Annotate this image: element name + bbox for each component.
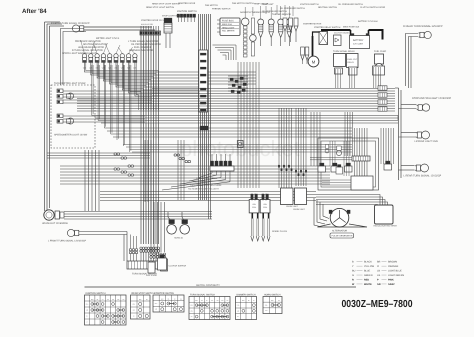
svg-text:STOP AND TAILLIGHT 12V32/3CP: STOP AND TAILLIGHT 12V32/3CP bbox=[412, 97, 451, 100]
svg-text:SWITCH CONTINUITY: SWITCH CONTINUITY bbox=[196, 284, 220, 287]
svg-text:BAT: BAT bbox=[242, 300, 245, 302]
svg-text:THERMO SENSOR: THERMO SENSOR bbox=[272, 13, 291, 16]
svg-text:ST: ST bbox=[174, 299, 176, 301]
svg-text:SPARK PLUGS: SPARK PLUGS bbox=[272, 230, 288, 233]
svg-text:REAR STOP LIGHT SWITCH: REAR STOP LIGHT SWITCH bbox=[152, 3, 181, 6]
svg-text:FR HEADLIGHT RELAY: FR HEADLIGHT RELAY bbox=[196, 177, 218, 180]
svg-text:12V 12AH: 12V 12AH bbox=[353, 43, 363, 46]
svg-text:IG: IG bbox=[278, 300, 279, 302]
svg-text:BAT: BAT bbox=[271, 300, 274, 302]
svg-text:COIL: COIL bbox=[263, 206, 267, 209]
svg-text:TACHOMETER LIGHT TAILLIGHT: TACHOMETER LIGHT TAILLIGHT bbox=[188, 188, 220, 191]
svg-text:TL1: TL1 bbox=[180, 299, 183, 301]
svg-text:CLUTCH SWITCH DIODE: CLUTCH SWITCH DIODE bbox=[360, 6, 386, 9]
svg-text:BATTERY: BATTERY bbox=[353, 39, 364, 42]
svg-text:FAN MOTOR: FAN MOTOR bbox=[205, 4, 218, 7]
svg-text:SIDE STAND: SIDE STAND bbox=[146, 274, 158, 277]
svg-text:PINK: PINK bbox=[388, 278, 394, 281]
svg-text:ST: ST bbox=[206, 300, 208, 302]
svg-text:ST: ST bbox=[86, 316, 88, 318]
svg-text:STARTER SWITCH: STARTER SWITCH bbox=[154, 292, 175, 295]
svg-text:SPARK UNIT: SPARK UNIT bbox=[293, 208, 306, 211]
svg-text:STOP LIGHT SWITCH: STOP LIGHT SWITCH bbox=[162, 15, 184, 18]
svg-text:OIL PRESSURE SWITCH: OIL PRESSURE SWITCH bbox=[338, 3, 363, 6]
svg-text:BU: BU bbox=[352, 269, 356, 272]
svg-text:THERMO SWITCH: THERMO SWITCH bbox=[212, 8, 231, 11]
svg-text:ON: ON bbox=[155, 309, 157, 311]
svg-text:ON: ON bbox=[133, 310, 135, 312]
svg-text:REAR STOP LIGHT SWITCH: REAR STOP LIGHT SWITCH bbox=[146, 6, 175, 9]
svg-text:TL2: TL2 bbox=[216, 300, 219, 302]
svg-text:LICENSE LIGHT 12V8: LICENSE LIGHT 12V8 bbox=[415, 140, 439, 143]
svg-text:HO: HO bbox=[117, 299, 119, 301]
svg-text:TL1: TL1 bbox=[107, 299, 110, 301]
svg-text:TL1: TL1 bbox=[211, 300, 214, 302]
svg-text:BAT: BAT bbox=[195, 300, 198, 302]
svg-text:FUEL RESERVE: FUEL RESERVE bbox=[134, 46, 152, 49]
svg-text:TAILLIGHT RELAY: TAILLIGHT RELAY bbox=[193, 181, 211, 184]
svg-text:TL2: TL2 bbox=[112, 299, 115, 301]
svg-text:A B LB LG GR: A B LB LG GR bbox=[141, 23, 154, 26]
svg-text:After '84: After '84 bbox=[22, 8, 47, 15]
svg-text:0030Z–ME9–7800: 0030Z–ME9–7800 bbox=[342, 299, 413, 310]
svg-text:FAN MOTOR SWITCH: FAN MOTOR SWITCH bbox=[232, 2, 254, 5]
svg-text:IG: IG bbox=[97, 299, 98, 301]
svg-text:TACHOMETER LIGHT 12V3W: TACHOMETER LIGHT 12V3W bbox=[54, 82, 86, 85]
svg-text:OFF: OFF bbox=[155, 303, 158, 305]
svg-text:TURN SIGNAL RELAY: TURN SIGNAL RELAY bbox=[333, 50, 355, 53]
svg-text:BAT: BAT bbox=[139, 299, 142, 301]
svg-text:BAT: BAT bbox=[161, 299, 164, 301]
svg-text:IG: IG bbox=[146, 299, 147, 301]
svg-text:FUEL PUMP: FUEL PUMP bbox=[374, 50, 387, 53]
svg-text:IGNITION SWITCH: IGNITION SWITCH bbox=[177, 10, 197, 13]
svg-text:HORN 3A: HORN 3A bbox=[174, 237, 184, 240]
svg-text:BR: BR bbox=[377, 261, 381, 264]
svg-text:OIL PRESSURE SWITCH: OIL PRESSURE SWITCH bbox=[280, 7, 305, 10]
svg-text:TURN SIGNAL STOP LIGHT WIRE: TURN SIGNAL STOP LIGHT WIRE bbox=[190, 184, 222, 187]
svg-text:L FRONT TURN SIGNAL 12V32/3CP: L FRONT TURN SIGNAL 12V32/3CP bbox=[48, 240, 87, 243]
svg-text:OFF: OFF bbox=[265, 305, 268, 307]
svg-text:P: P bbox=[87, 322, 88, 324]
svg-text:FA: FA bbox=[227, 300, 229, 302]
svg-text:ON: ON bbox=[86, 310, 88, 312]
svg-text:OFF: OFF bbox=[86, 304, 89, 306]
svg-text:CLUTCH SWITCH: CLUTCH SWITCH bbox=[169, 265, 187, 268]
svg-text:LIGHT BLUE: LIGHT BLUE bbox=[388, 269, 402, 272]
svg-text:STARTER MOTOR: STARTER MOTOR bbox=[303, 23, 322, 26]
svg-text:NEUTRAL INDICATOR: NEUTRAL INDICATOR bbox=[83, 43, 107, 46]
svg-text:R TURN SIGNAL INDICATOR: R TURN SIGNAL INDICATOR bbox=[72, 49, 103, 52]
svg-text:IG: IG bbox=[168, 299, 169, 301]
svg-text:OFF: OFF bbox=[237, 305, 240, 307]
svg-text:BATTERY 12V12AH: BATTERY 12V12AH bbox=[358, 20, 378, 23]
svg-text:BAT: BAT bbox=[91, 299, 94, 301]
svg-text:STARTER RELAY SWITCH: STARTER RELAY SWITCH bbox=[314, 26, 341, 29]
svg-text:TEMP UNIT: TEMP UNIT bbox=[262, 3, 274, 6]
svg-text:photobucket: photobucket bbox=[180, 136, 300, 161]
svg-text:HORN SWITCH: HORN SWITCH bbox=[264, 293, 281, 296]
svg-text:LIGHT GREEN: LIGHT GREEN bbox=[388, 274, 404, 277]
svg-text:R FRONT TURN SIGNAL 12V32/3CP: R FRONT TURN SIGNAL 12V32/3CP bbox=[51, 22, 90, 25]
svg-text:STARTER DIODE: STARTER DIODE bbox=[178, 2, 196, 5]
svg-text:REAR STOP SWITCH: REAR STOP SWITCH bbox=[132, 292, 155, 295]
svg-text:GR: GR bbox=[377, 283, 381, 286]
svg-text:LB: LB bbox=[377, 269, 380, 272]
svg-text:BLACK: BLACK bbox=[364, 261, 372, 264]
svg-text:ON: ON bbox=[265, 310, 267, 312]
svg-text:TURN SIGNAL SWITCH: TURN SIGNAL SWITCH bbox=[190, 293, 215, 296]
svg-text:R REAR TURN SIGNAL 12V32CP: R REAR TURN SIGNAL 12V32CP bbox=[403, 25, 443, 28]
svg-text:MAIN FUSE 30A: MAIN FUSE 30A bbox=[343, 26, 360, 29]
svg-text:ST: ST bbox=[237, 316, 239, 318]
svg-text:IGNITION SWITCH: IGNITION SWITCH bbox=[300, 3, 319, 6]
svg-text:ALTERNATOR: ALTERNATOR bbox=[332, 230, 347, 233]
svg-text:YELLOW: YELLOW bbox=[364, 265, 375, 268]
svg-text:IGNITION SWITCH: IGNITION SWITCH bbox=[86, 292, 106, 295]
svg-text:OIL PRESSURE SWITCH: OIL PRESSURE SWITCH bbox=[262, 10, 287, 13]
svg-text:L REAR TURN SIGNAL 12V32CP: L REAR TURN SIGNAL 12V32CP bbox=[404, 175, 442, 178]
svg-text:ST: ST bbox=[133, 316, 135, 318]
svg-text:ST: ST bbox=[191, 316, 193, 318]
svg-text:ON: ON bbox=[191, 310, 193, 312]
svg-text:FUEL CUT: FUEL CUT bbox=[348, 58, 358, 61]
svg-text:TAIL METER: TAIL METER bbox=[222, 30, 235, 33]
svg-text:METER LIGHT 12V3 4: METER LIGHT 12V3 4 bbox=[96, 37, 120, 40]
svg-text:GRAY: GRAY bbox=[388, 283, 395, 286]
svg-text:OFF: OFF bbox=[190, 305, 193, 307]
svg-text:M: M bbox=[312, 59, 316, 64]
svg-text:RELAY: RELAY bbox=[348, 61, 355, 64]
svg-text:PULSE GENERATOR: PULSE GENERATOR bbox=[332, 235, 353, 238]
svg-text:RED: RED bbox=[364, 278, 369, 281]
svg-text:IG: IG bbox=[248, 300, 249, 302]
svg-text:HIGH BEAM INDICATOR: HIGH BEAM INDICATOR bbox=[78, 46, 104, 49]
svg-text:ST: ST bbox=[102, 299, 104, 301]
svg-text:OFF: OFF bbox=[132, 304, 135, 306]
svg-text:ST: ST bbox=[253, 300, 255, 302]
svg-text:HO: HO bbox=[221, 300, 223, 302]
svg-text:FA: FA bbox=[123, 299, 125, 301]
svg-text:G: G bbox=[352, 274, 354, 277]
svg-text:ORANGE: ORANGE bbox=[388, 265, 399, 268]
svg-text:IG: IG bbox=[201, 300, 202, 302]
svg-text:LG: LG bbox=[377, 274, 380, 277]
svg-text:PRESENCE INDICATOR: PRESENCE INDICATOR bbox=[75, 40, 101, 43]
svg-text:GREEN: GREEN bbox=[364, 274, 373, 277]
svg-text:HEADLIGHT 12V60/55W: HEADLIGHT 12V60/55W bbox=[42, 222, 69, 225]
svg-text:WHITE: WHITE bbox=[364, 283, 372, 286]
svg-text:CLUTCH DIODE: CLUTCH DIODE bbox=[334, 32, 350, 35]
svg-text:COIL: COIL bbox=[252, 206, 256, 209]
svg-text:O: O bbox=[377, 265, 379, 268]
svg-text:SPARK UNIT: SPARK UNIT bbox=[286, 205, 299, 208]
svg-text:BROWN: BROWN bbox=[388, 261, 397, 264]
svg-text:REGULATOR RECTIFIER: REGULATOR RECTIFIER bbox=[374, 225, 398, 228]
svg-text:ON: ON bbox=[237, 310, 239, 312]
svg-text:R: R bbox=[352, 278, 354, 281]
svg-text:DIMMER SWITCH: DIMMER SWITCH bbox=[237, 293, 256, 296]
svg-text:SPEEDOMETER LIGHT 12V3W: SPEEDOMETER LIGHT 12V3W bbox=[54, 134, 88, 137]
svg-text:NEUTRAL SWITCH: NEUTRAL SWITCH bbox=[318, 6, 337, 9]
svg-text:BLUE: BLUE bbox=[364, 269, 371, 272]
